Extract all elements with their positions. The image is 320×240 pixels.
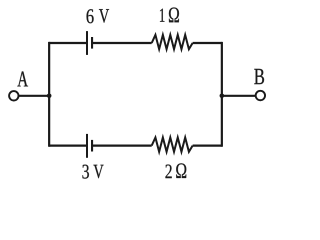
wire left vertical: [48, 42, 50, 147]
resistor R1 1ohm zigzag: [152, 35, 193, 49]
label 3 V value "3": [82, 165, 88, 179]
battery V2 3V long plate: [86, 134, 88, 158]
resistor R2 2ohm zigzag: [152, 138, 193, 152]
label 1 ohm unit "Ω": [169, 7, 179, 22]
terminal B circle: [256, 91, 265, 100]
label B terminal "B": [254, 69, 264, 84]
wire resistor R2 to bottom-right corner: [193, 145, 222, 147]
battery V1 6V short plate: [91, 37, 93, 49]
label 2 ohm value "2": [165, 165, 171, 179]
label A terminal "A": [17, 71, 28, 86]
wire battery V2 to resistor R2: [92, 145, 152, 147]
terminal A circle: [9, 91, 18, 100]
wire right node to terminal B: [222, 95, 255, 97]
battery V1 6V long plate: [86, 31, 88, 55]
junction node left: [47, 94, 52, 99]
label 2 ohm unit "Ω": [176, 163, 186, 178]
wire top-left segment: [49, 42, 87, 44]
wire bottom-left segment: [49, 145, 87, 147]
wire resistor R1 to top-right corner: [193, 42, 222, 44]
wire terminal A to left node: [19, 95, 49, 97]
label 6 V unit "V": [99, 9, 109, 23]
label 6 V value "6": [87, 9, 94, 23]
wire battery V1 to resistor R1: [92, 42, 152, 44]
wire right vertical: [221, 42, 223, 147]
junction node right: [220, 94, 225, 99]
label 1 ohm value "1": [160, 9, 165, 22]
label 3 V unit "V": [93, 165, 103, 178]
battery V2 3V short plate: [91, 140, 93, 152]
